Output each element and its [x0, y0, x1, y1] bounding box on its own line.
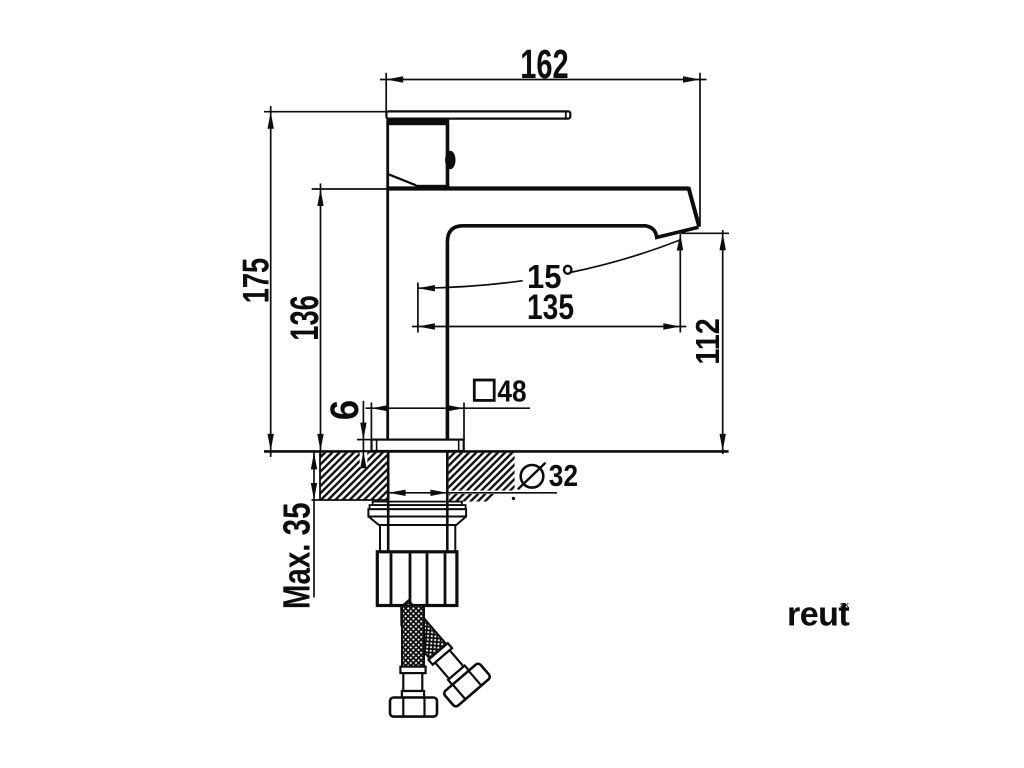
svg-text:48: 48: [497, 374, 526, 409]
svg-text:112: 112: [690, 318, 727, 364]
arrow 136 top: [317, 189, 323, 206]
dim 6 top extension tick: [357, 439, 373, 441]
handle cartridge block: [387, 119, 456, 189]
svg-text:6: 6: [323, 400, 367, 421]
label square48 symbol: [474, 380, 494, 400]
faucet handle lever: [386, 111, 570, 118]
arrow dia32 right: [430, 490, 447, 496]
dim 48 left extension: [370, 403, 372, 441]
arrow 162 right: [683, 76, 700, 82]
dimension lines: [264, 73, 729, 598]
svg-text:175: 175: [235, 258, 276, 304]
svg-text:136: 136: [283, 295, 327, 341]
arrow arc left: [418, 285, 435, 291]
tapered collar: [368, 517, 466, 526]
arrow 6 bottom: [360, 451, 366, 468]
threaded shank through counter: [388, 452, 447, 552]
arrow 136 bottom: [317, 434, 323, 451]
arrow 112 bottom: [720, 434, 726, 451]
connector sleeve: [380, 525, 455, 552]
dimension labels: [235, 41, 727, 609]
arrow arc right: [673, 234, 684, 252]
dim 175 line: [270, 106, 272, 457]
dim 112 top extension: [681, 232, 729, 234]
arrow 48 right: [447, 405, 464, 411]
arrow 175 bottom: [268, 434, 274, 451]
angle 15 arc right segment: [570, 240, 680, 273]
angle 15 arc left segment: [418, 281, 523, 289]
svg-text:32: 32: [549, 458, 578, 493]
svg-text:Max. 35: Max. 35: [276, 502, 318, 609]
svg-text:162: 162: [520, 41, 568, 87]
dim 162 left extension: [385, 73, 387, 112]
dim 175 top extension: [264, 111, 387, 113]
dim 135 right vertical: [679, 234, 681, 333]
faucet body and spout outline: [386, 119, 699, 440]
under-counter washer plates: [368, 502, 466, 517]
arrow 48 left: [371, 405, 388, 411]
arrow 6 top: [360, 423, 366, 440]
dim 136 top extension: [312, 188, 387, 190]
arrow 135 right: [663, 323, 680, 329]
arrow 162 left: [386, 76, 403, 82]
svg-text:SK: SK: [840, 603, 849, 610]
dim 112 line: [722, 230, 724, 454]
arrow max35 bottom: [311, 483, 317, 500]
dimension arrows: [268, 76, 726, 500]
mounting knurled nut: [377, 552, 457, 606]
dim 48 right extension: [463, 403, 465, 441]
countertop surface line: [264, 450, 729, 453]
arrow max35 top: [311, 452, 317, 469]
vertical flexible hose: [390, 606, 437, 717]
diagonal flexible hose: [382, 592, 491, 708]
dim 162 right extension: [699, 73, 701, 226]
reut logo: [787, 596, 849, 634]
base flange plate: [372, 440, 464, 451]
arrow 135 left: [418, 323, 435, 329]
countertop hatched section right: [449, 453, 516, 502]
arrow 112 top: [720, 233, 726, 250]
countertop hatched section left: [312, 453, 388, 500]
dim max35 line: [313, 452, 315, 597]
svg-text:135: 135: [527, 288, 574, 327]
arrow 175 top: [268, 112, 274, 129]
dim 162 line: [380, 79, 707, 81]
svg-text:reut: reut: [787, 596, 849, 634]
arrow dia32 left: [389, 490, 406, 496]
dim 135 line: [412, 326, 686, 328]
label diameter symbol: [518, 463, 546, 490]
dim 135 left extension: [417, 283, 419, 333]
dim 136 line: [320, 184, 322, 458]
dim 48 line: [366, 407, 531, 409]
dim diameter 32 line: [389, 492, 557, 494]
dim 6 line: [362, 401, 364, 466]
white channel for dim 6 line through hatch: [360, 452, 368, 467]
